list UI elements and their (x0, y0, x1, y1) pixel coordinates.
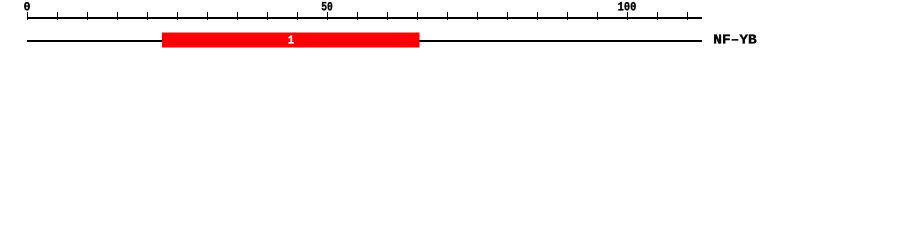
protein domain diagram NF-YB (0, 0, 900, 58)
protein backbone line (27, 40, 702, 42)
svg-text:NF–YB: NF–YB (713, 34, 756, 49)
svg-text:50: 50 (321, 0, 333, 15)
ruler axis line (27, 17, 702, 19)
domain box 1 (red) (162, 33, 420, 48)
ruler ticks every 5 residues (27, 12, 688, 20)
svg-text:100: 100 (618, 0, 637, 15)
svg-text:0: 0 (24, 0, 31, 15)
svg-text:1: 1 (288, 34, 294, 48)
background (0, 0, 900, 58)
